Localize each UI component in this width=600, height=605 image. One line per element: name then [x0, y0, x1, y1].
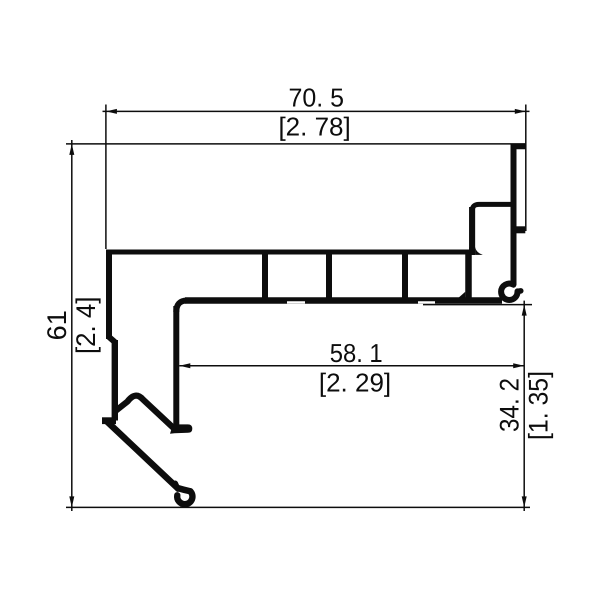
extension line bottom of 61 [66, 506, 530, 508]
svg-text:34. 2: 34. 2 [495, 378, 525, 432]
svg-text:70. 5: 70. 5 [289, 82, 345, 112]
profile bottom-left hook curl [177, 491, 192, 504]
rib R4 [465, 252, 472, 298]
profile inner web vertical [173, 306, 179, 426]
right hook barb [518, 288, 521, 294]
profile lower section corner [176, 301, 187, 313]
svg-text:61: 61 [42, 310, 72, 340]
svg-text:[2. 29]: [2. 29] [319, 367, 391, 397]
extension line right of 70.5 [525, 105, 527, 232]
right hook curl [501, 284, 517, 300]
profile lower diagonal leg [108, 422, 191, 491]
extension line left of 70.5 [105, 105, 107, 250]
right bar top cap [511, 144, 527, 150]
bottom wall underside notch 1 [287, 301, 305, 303]
extension line top of 34.2 [423, 304, 532, 306]
step top horizontal [472, 204, 513, 214]
extension line top of 61 [66, 143, 526, 145]
svg-text:58. 1: 58. 1 [330, 338, 383, 368]
profile bottom wall [185, 297, 502, 303]
arrow left 70.5 [106, 109, 117, 114]
svg-text:[2. 78]: [2. 78] [278, 111, 350, 141]
dimension line 70.5 [103, 110, 530, 112]
arrow right 58.1 [513, 363, 524, 368]
profile bottom-left tab [102, 417, 116, 424]
tall right bar [511, 146, 517, 285]
profile left wall upper [106, 250, 112, 340]
step vertical stub above flange [469, 247, 475, 255]
svg-text:[2. 4]: [2. 4] [71, 297, 101, 355]
profile bottom-left hook nub [175, 483, 178, 489]
profile top flange [106, 250, 471, 255]
rib R3 [402, 254, 408, 298]
arrow right 70.5 [515, 109, 526, 114]
profile left wall lower [112, 340, 118, 421]
fillet spur right of step/flange junction [475, 248, 483, 255]
dimension line 61 [71, 140, 73, 511]
bottom wall underside notch 2 [418, 301, 435, 303]
arrow bottom 61 [69, 496, 74, 507]
profile bridge fin to apex [116, 396, 174, 428]
arrow top 34.2 [522, 305, 527, 316]
svg-text:[1. 35]: [1. 35] [524, 371, 554, 440]
rib R1 [262, 254, 268, 298]
dimension line 58.1 [179, 365, 524, 367]
dimension line 34.2 [523, 301, 525, 511]
profile left wall jog [109, 337, 115, 342]
arrow bottom 34.2 [522, 496, 527, 507]
step vertical [469, 207, 475, 255]
profile foot of inner web [170, 424, 192, 433]
arrow left 58.1 [179, 363, 190, 368]
arrow top 61 [69, 144, 74, 155]
right bar side tab [511, 226, 526, 233]
fillet at rib R4 base [459, 292, 466, 298]
rib R2 [326, 254, 332, 298]
